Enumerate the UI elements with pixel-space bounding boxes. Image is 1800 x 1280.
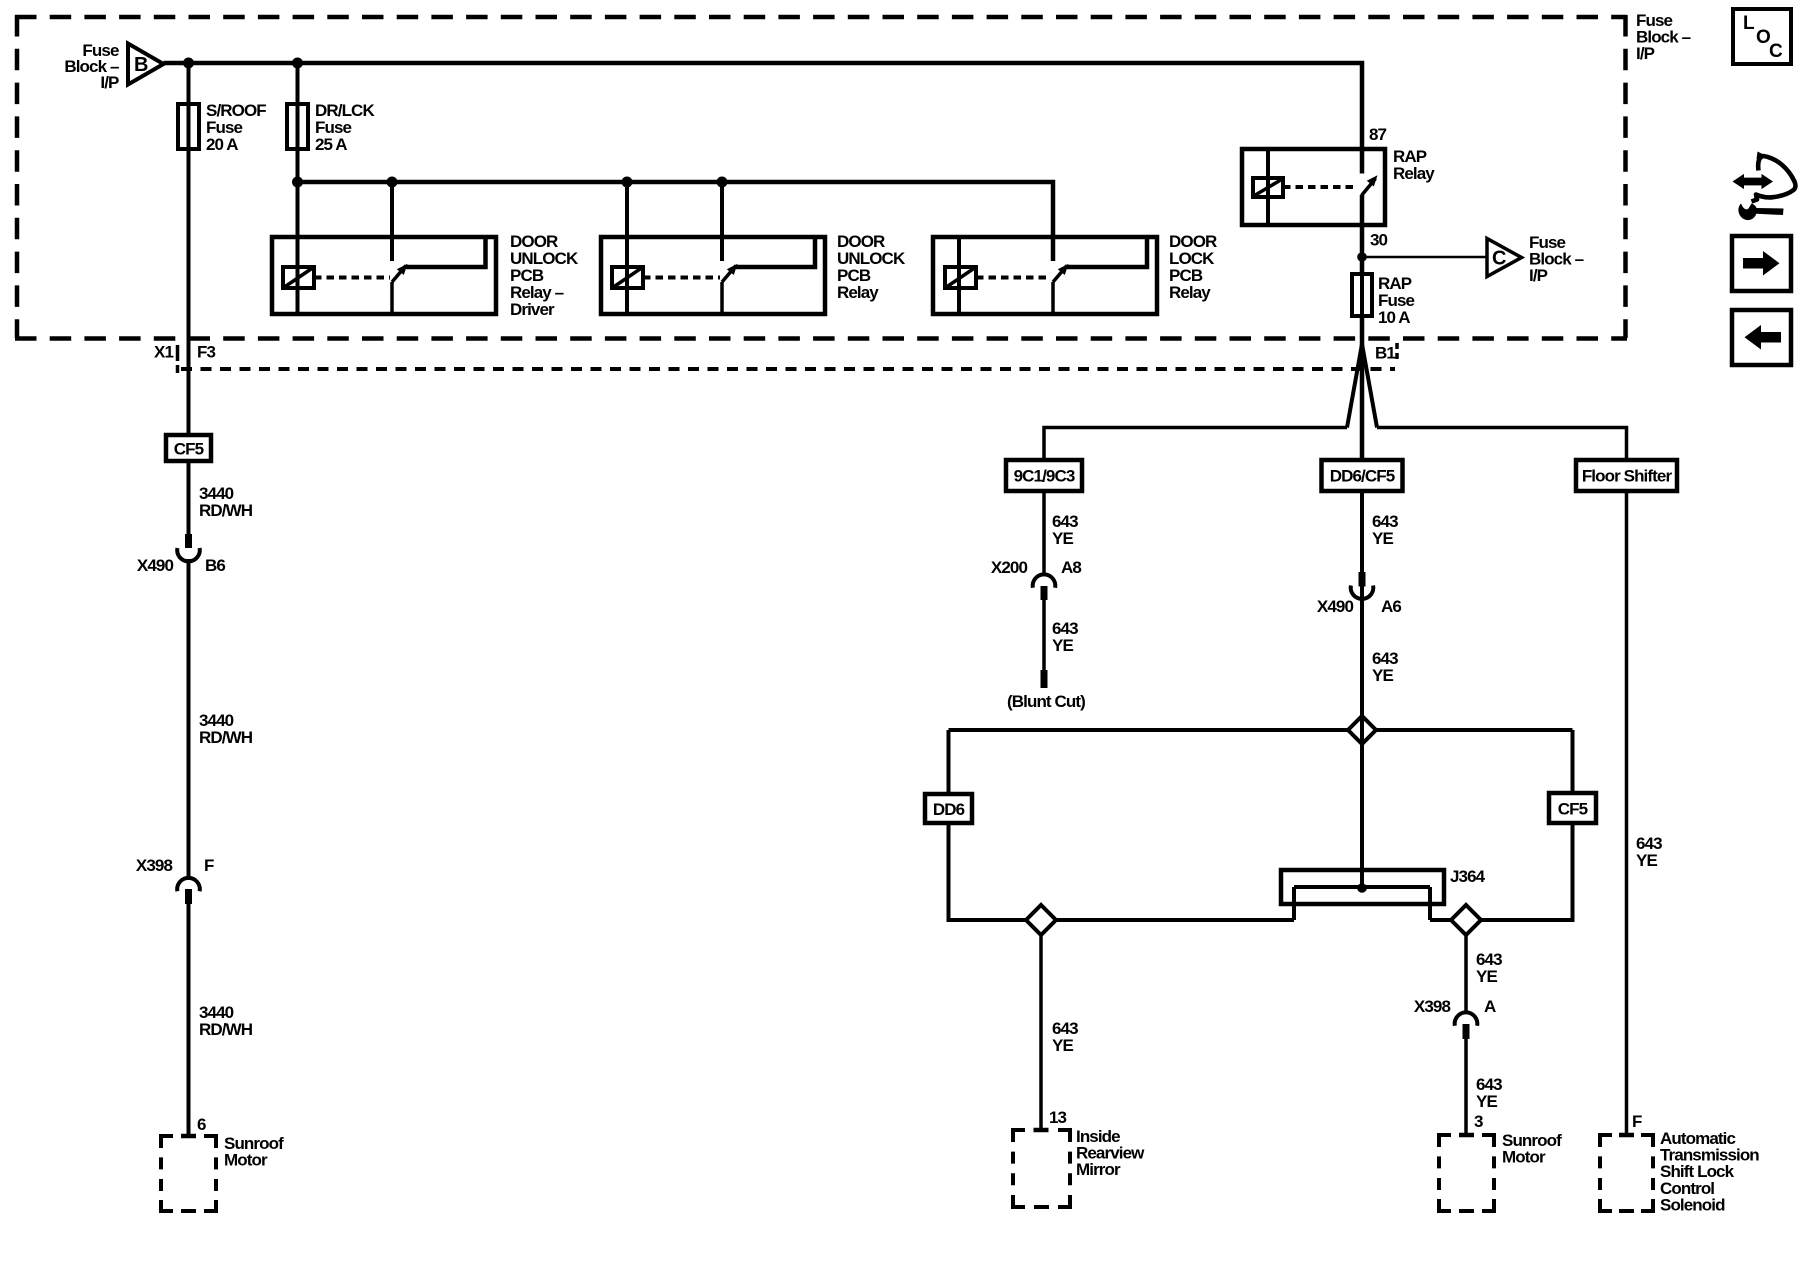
junction dot K1 coil feed — [292, 177, 303, 188]
label box CF5 left — [166, 435, 211, 461]
previous page arrow box — [1732, 310, 1791, 365]
svg-text:J364: J364 — [1450, 867, 1486, 886]
svg-text:C: C — [1769, 41, 1783, 62]
bottom loop wire left — [949, 918, 1027, 922]
node dot at S/ROOF branch — [183, 58, 194, 69]
label box Floor Shifter — [1576, 460, 1677, 491]
relay K1 DOOR UNLOCK PCB Relay - Driver — [272, 182, 496, 314]
main feed wire from triangle B — [164, 63, 1363, 174]
svg-text:A8: A8 — [1061, 558, 1081, 577]
fuse RAP 10A — [1352, 274, 1372, 316]
wire to fuse block C — [1362, 256, 1487, 259]
distribution loop top wire — [949, 728, 1349, 732]
pin bar sunroof left — [181, 1134, 196, 1139]
B1 tick — [1395, 343, 1399, 362]
wire DD6/CF5 to J364 — [1360, 491, 1364, 888]
wire below X490 — [1360, 598, 1364, 717]
sunroof motor dashed box left — [161, 1136, 216, 1211]
relay feed bus — [298, 182, 1054, 261]
svg-text:B1: B1 — [1375, 344, 1395, 363]
node dot at DR/LCK branch — [292, 58, 303, 69]
svg-text:YE: YE — [1052, 1036, 1073, 1055]
svg-text:YE: YE — [1476, 1092, 1497, 1111]
pin bar mirror — [1034, 1128, 1049, 1133]
junction dot K1 switch feed — [387, 177, 398, 188]
svg-text:X1: X1 — [154, 343, 173, 362]
wire below CF5 to loop corner — [1481, 823, 1573, 920]
floor shifter branch wire — [1625, 491, 1629, 1135]
left drop to DD6 — [947, 730, 951, 794]
X1 / F3 connector boundary dashed line — [181, 367, 1395, 371]
label box 9C1/9C3 — [1006, 460, 1082, 491]
label box DD6/CF5 upper — [1322, 460, 1403, 491]
junction dot K2 switch feed — [717, 177, 728, 188]
svg-text:RD/WH: RD/WH — [199, 501, 253, 520]
svg-text:Solenoid: Solenoid — [1660, 1195, 1725, 1214]
svg-text:X398: X398 — [136, 856, 173, 875]
pin bar sunroof right — [1459, 1133, 1474, 1138]
svg-text:YE: YE — [1052, 529, 1073, 548]
next page arrow box — [1732, 236, 1791, 291]
svg-text:X490: X490 — [1317, 597, 1354, 616]
svg-text:X490: X490 — [137, 556, 174, 575]
wire merge right diagonal — [1362, 344, 1377, 428]
svg-text:Floor Shifter: Floor Shifter — [1582, 467, 1673, 486]
wire DR/LCK branch down — [296, 63, 300, 182]
fuse block C triangle — [1487, 239, 1522, 277]
fuse S/ROOF 20A — [178, 104, 199, 149]
svg-text:10 A: 10 A — [1378, 308, 1410, 327]
svg-text:(Blunt Cut): (Blunt Cut) — [1007, 692, 1085, 711]
fuse block I/P label top-right — [1636, 11, 1691, 63]
label box DD6 — [925, 794, 972, 823]
relay K3 DOOR LOCK PCB Relay — [933, 237, 1157, 314]
svg-text:9C1/9C3: 9C1/9C3 — [1014, 467, 1075, 486]
splice diamond top — [1348, 716, 1376, 744]
svg-text:Mirror: Mirror — [1076, 1160, 1121, 1179]
svg-text:YE: YE — [1372, 529, 1393, 548]
inside rearview mirror dashed box — [1013, 1130, 1070, 1207]
svg-text:Relay: Relay — [1393, 164, 1435, 183]
pin bar solenoid — [1619, 1133, 1634, 1138]
svg-text:RD/WH: RD/WH — [199, 728, 253, 747]
svg-text:X200: X200 — [991, 558, 1028, 577]
relay K2 DOOR UNLOCK PCB Relay — [601, 182, 825, 314]
svg-text:YE: YE — [1636, 851, 1657, 870]
wire to sunroof motor — [1464, 1039, 1468, 1135]
svg-text:Relay: Relay — [1169, 283, 1211, 302]
center branch wire 643 YE — [1360, 491, 1364, 572]
svg-text:87: 87 — [1369, 125, 1387, 144]
svg-text:25 A: 25 A — [315, 135, 347, 154]
junction dot K2 coil feed — [622, 177, 633, 188]
svg-text:I/P: I/P — [1636, 44, 1655, 63]
svg-text:I/P: I/P — [1529, 266, 1548, 285]
svg-text:6: 6 — [197, 1115, 206, 1134]
change icon squiggle — [1733, 152, 1796, 221]
wire RAP fuse to B1 splice — [1360, 316, 1365, 460]
svg-text:A6: A6 — [1381, 597, 1401, 616]
node 30 junction dot — [1357, 252, 1367, 262]
svg-text:Motor: Motor — [1502, 1148, 1546, 1167]
svg-text:30: 30 — [1370, 231, 1388, 250]
svg-text:20 A: 20 A — [206, 135, 238, 154]
svg-text:A: A — [1484, 997, 1496, 1016]
splice diamond left — [1026, 905, 1056, 935]
9C1 branch wire 643 YE — [1042, 491, 1046, 575]
svg-text:B6: B6 — [205, 556, 225, 575]
LOC box icon — [1733, 9, 1791, 64]
svg-text:L: L — [1743, 13, 1755, 34]
blunt cut stub — [1041, 670, 1048, 688]
wire J364 to right diamond — [1430, 918, 1451, 922]
wire to X398 — [187, 559, 191, 878]
label box CF5 right — [1549, 793, 1596, 823]
X398 A branch wire — [1464, 935, 1468, 1013]
automatic transmission shift lock control solenoid dashed box — [1600, 1135, 1653, 1211]
wire below X200 — [1042, 600, 1046, 670]
mirror branch wire — [1039, 935, 1043, 1130]
svg-text:DD6/CF5: DD6/CF5 — [1330, 467, 1395, 486]
svg-text:F: F — [1632, 1112, 1642, 1131]
fuse DR/LCK 25A — [287, 104, 308, 149]
svg-text:YE: YE — [1372, 666, 1393, 685]
X1 tick — [176, 345, 180, 374]
svg-text:YE: YE — [1476, 967, 1497, 986]
svg-text:YE: YE — [1052, 636, 1073, 655]
svg-text:C: C — [1492, 248, 1506, 270]
wire to floor shifter — [1377, 428, 1627, 461]
svg-text:RD/WH: RD/WH — [199, 1020, 253, 1039]
connector X200 A8 — [1033, 574, 1056, 587]
svg-text:Relay: Relay — [837, 283, 879, 302]
wire merge left diagonal — [1347, 344, 1362, 428]
wire diamond to J364 — [1056, 918, 1294, 922]
wire below DD6 — [947, 823, 951, 922]
relay RAP Relay — [1242, 149, 1385, 316]
splice diamond right — [1451, 905, 1481, 935]
sunroof motor dashed box right — [1439, 1135, 1494, 1211]
svg-text:F3: F3 — [197, 343, 215, 362]
svg-text:CF5: CF5 — [174, 440, 204, 459]
connector X490 A6 — [1359, 572, 1366, 587]
svg-text:X398: X398 — [1414, 997, 1451, 1016]
svg-text:DD6: DD6 — [933, 800, 965, 819]
svg-text:B: B — [134, 54, 148, 76]
fuse block I/P outer dashed border — [15, 15, 1627, 339]
connector X490 B6 — [187, 461, 191, 534]
svg-text:3: 3 — [1474, 1112, 1483, 1131]
svg-text:I/P: I/P — [100, 73, 119, 92]
svg-text:Motor: Motor — [224, 1151, 268, 1170]
wire to 9C1/9C3 — [1044, 428, 1347, 461]
svg-text:13: 13 — [1049, 1108, 1067, 1127]
fuse block B triangle — [128, 44, 164, 85]
wire to sunroof motor left — [187, 904, 191, 1136]
svg-text:F: F — [204, 856, 214, 875]
wire S/ROOF branch down — [187, 63, 191, 435]
svg-text:Driver: Driver — [510, 300, 555, 319]
wire 3440 RD/WH labels — [199, 484, 253, 520]
splice pack J364 — [1281, 870, 1444, 920]
connector X398 A — [1455, 1012, 1478, 1025]
svg-text:CF5: CF5 — [1558, 800, 1588, 819]
connector X398 F — [177, 878, 200, 891]
right drop to CF5 — [1571, 730, 1575, 793]
